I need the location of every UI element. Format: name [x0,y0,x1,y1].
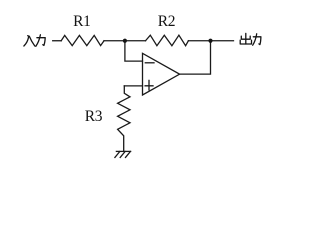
svg-text:R1: R1 [73,13,90,30]
svg-text:R2: R2 [158,13,175,30]
svg-text:R3: R3 [85,108,103,125]
